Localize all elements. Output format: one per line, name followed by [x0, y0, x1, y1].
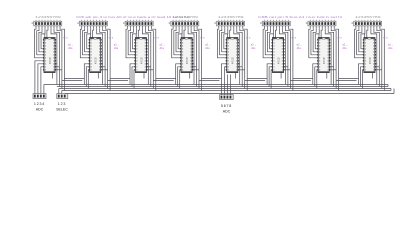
- svg-text:123456789: 123456789: [355, 16, 382, 19]
- wire U5 pin L9 to ADC2 header pin 1: [222, 64, 227, 95]
- bus line 2: [57, 86, 388, 88]
- bus corner v1: [387, 85, 389, 87]
- bus corner v3: [393, 89, 395, 94]
- wire U5 to ADC2 header pin 4: [230, 75, 232, 95]
- wire U3 pin L11 to bus: [134, 70, 135, 89]
- bus line 3: [59, 88, 391, 90]
- wire U7 pin L9 to bus: [313, 64, 318, 85]
- wire U8 pin L10 to bus: [361, 67, 364, 87]
- mux module U7 with header J7: [306, 20, 348, 91]
- JB pin 2: [61, 95, 63, 98]
- wire U4 pin L9 to bus: [176, 64, 181, 85]
- wire bus return to JB: [64, 93, 66, 95]
- wire U1 pin L11 to ADC header pin 3: [41, 67, 44, 94]
- wire inter-block step b U5 to U6: [245, 80, 265, 82]
- wire U1 pin L10 to ADC header pin 2: [38, 64, 44, 94]
- wire U5 to ADC2 header pin 3: [227, 75, 229, 95]
- bus corner v2: [390, 89, 392, 91]
- wire inter-block step U3 to U4: [156, 78, 176, 80]
- wire inter-block step b U7 to U8: [336, 80, 356, 82]
- wire U6 pin L10 to bus: [269, 67, 272, 87]
- wire bus line 3 to ADC header pin 4: [43, 85, 45, 94]
- svg-text:123: 123: [58, 102, 66, 106]
- svg-text:ADC: ADC: [36, 108, 44, 112]
- JA pin 4: [43, 95, 45, 98]
- JA pin 2: [37, 95, 39, 98]
- svg-text:123456789: 123456789: [35, 16, 62, 19]
- mux module U3 with header J3: [123, 20, 165, 91]
- wire inter-block step b U6 to U7: [290, 80, 310, 82]
- wire U2 pin L10 to bus: [86, 67, 89, 87]
- bus line 1: [44, 84, 388, 86]
- JC pin 2: [224, 96, 226, 99]
- JB pin 3 stub: [64, 93, 66, 95]
- svg-text:1234: 1234: [34, 102, 45, 106]
- wire U8 pin L11 to bus: [363, 70, 364, 89]
- mux module U8 with header J8: [352, 20, 394, 91]
- wire inter-block step b U2 to U3: [108, 80, 128, 82]
- bus line 4: [62, 90, 391, 92]
- wire U3 pin L9 to bus: [130, 64, 135, 85]
- wire U2 pin L11 to bus: [88, 70, 89, 89]
- svg-text:5678: 5678: [221, 104, 232, 108]
- wire inter-block step U5 to U6: [247, 78, 267, 80]
- svg-text:C6B net pin 5 bus A1 mux: C6B net pin 5 bus A1 mux bnk b sel hi: [258, 15, 343, 19]
- JB pin 1 stub: [58, 89, 60, 94]
- svg-text:ADC: ADC: [223, 110, 231, 114]
- wire U7 pin L11 to bus: [317, 70, 318, 89]
- wire U2 pin L9 to bus: [84, 64, 89, 85]
- wire inter-block step U4 to U5: [202, 78, 222, 80]
- svg-text:123456789: 123456789: [218, 16, 245, 19]
- wire inter-block step b U1 to U2: [62, 80, 82, 82]
- wire inter-block step U2 to U3: [110, 78, 130, 80]
- JA pin 3: [40, 95, 42, 98]
- ADC header JA (1x4): [33, 94, 46, 99]
- mux module U6 with header J6: [260, 20, 302, 91]
- svg-text:C06 adr pin 3 to bus A0 o: C06 adr pin 3 to bus A0 of mux bank a IC…: [76, 15, 190, 19]
- wire inter-block step U6 to U7: [293, 78, 313, 80]
- wire U3 pin L10 to bus: [132, 67, 135, 87]
- JB pin 2 stub: [61, 91, 63, 94]
- wire U4 pin L10 to bus: [178, 67, 181, 87]
- JC pin 4: [230, 96, 232, 99]
- wire inter-block step b U3 to U4: [153, 80, 173, 82]
- JC pin 3: [227, 96, 229, 99]
- wire U6 pin L11 to bus: [271, 70, 272, 89]
- mux module U2 with header J2: [77, 20, 119, 91]
- wire U5 pin L10 to ADC2 header pin 2: [225, 67, 227, 95]
- wire inter-block step U1 to U2: [64, 78, 84, 80]
- mux module U5 with header J5: [214, 20, 256, 91]
- ADC2 header JC (1x4): [220, 95, 234, 100]
- svg-text:SELEC: SELEC: [56, 108, 68, 112]
- wire U1 pin L9 to ADC header pin 1: [35, 61, 44, 94]
- SELEC header JB (1x3): [57, 94, 68, 99]
- wire U8 pin L9 to bus: [359, 64, 364, 85]
- mux module U1 with header J1: [32, 20, 74, 91]
- bus line 5 return: [65, 93, 394, 95]
- wire U4 pin L11 to bus: [180, 70, 181, 89]
- mux module U4 with header J4: [169, 20, 211, 91]
- wire U6 pin L9 to bus: [267, 64, 272, 85]
- wire inter-block step U7 to U8: [339, 78, 359, 80]
- JC pin 1: [221, 96, 223, 99]
- JB pin 3: [64, 95, 66, 98]
- JA pin 1: [34, 95, 36, 98]
- wire inter-block step b U4 to U5: [199, 80, 219, 82]
- wire U7 pin L10 to bus: [315, 67, 318, 87]
- JB pin 1: [58, 95, 60, 98]
